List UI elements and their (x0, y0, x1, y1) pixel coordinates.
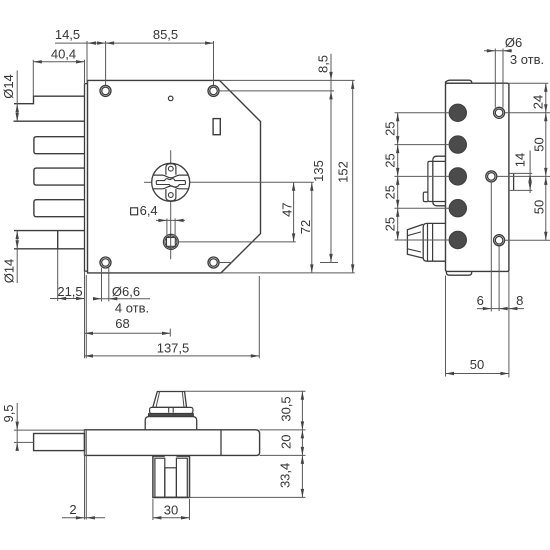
svg-text:152: 152 (336, 161, 351, 183)
cylinder escutcheon circle (152, 163, 190, 201)
bottom knob grip (153, 392, 187, 408)
bottom view faceplate edge lines (84, 430, 86, 520)
svg-text:Ø6: Ø6 (505, 35, 522, 50)
svg-text:6: 6 (477, 293, 484, 308)
rectangular slot (213, 119, 220, 135)
svg-text:25: 25 (383, 153, 398, 167)
bolt end circle 1 (449, 104, 466, 121)
bottom foot outer (153, 455, 190, 497)
small pin hole (168, 96, 173, 101)
bottom view bolt (34, 434, 85, 451)
bottom knob base (145, 417, 197, 430)
svg-text:Ø6,6: Ø6,6 (112, 284, 140, 299)
side screw hole top (494, 107, 505, 118)
side view bottom cap lip (446, 271, 471, 275)
cylinder centerline vertical (170, 150, 172, 163)
side tab 14 right edge (513, 173, 515, 190)
svg-text:9,5: 9,5 (1, 404, 16, 422)
svg-text:3 отв.: 3 отв. (510, 52, 544, 67)
deadbolt B2 (34, 137, 85, 154)
side view top cap tab (446, 80, 472, 83)
svg-text:21,5: 21,5 (57, 284, 82, 299)
svg-text:135: 135 (311, 160, 326, 182)
svg-text:24: 24 (531, 95, 546, 109)
cylinder centerline extension right (190, 181, 314, 183)
side view body (446, 83, 509, 271)
follower centerline extension right (179, 241, 296, 243)
svg-text:137,5: 137,5 (157, 340, 190, 355)
screw hole bottom-right (208, 257, 219, 268)
deadbolt B3 (34, 168, 85, 185)
svg-text:30,5: 30,5 (278, 396, 293, 421)
faceplate front view strip (85, 84, 88, 272)
bolt end circle 4 (449, 200, 466, 217)
front body bottom edge extension (221, 272, 355, 274)
cylinder centerline horizontal ticks (144, 181, 152, 183)
bottom knob flange (150, 407, 193, 413)
deadbolt B4 (34, 200, 85, 217)
svg-text:25: 25 (383, 185, 398, 199)
knob side profile (407, 224, 423, 258)
svg-text:2: 2 (69, 502, 76, 517)
bottom view bar body (85, 430, 260, 456)
latch bolt B5 bottom (14, 231, 85, 249)
deadbolt B1 top stepped bolt (14, 96, 85, 121)
svg-text:68: 68 (115, 316, 129, 331)
screw hole top-left (100, 85, 111, 96)
hole centerline extension y262 (219, 262, 232, 264)
cylinder bottom screw tab (166, 188, 176, 201)
bottom foot prongs (155, 458, 165, 497)
svg-text:85,5: 85,5 (153, 27, 178, 42)
svg-text:Ø14: Ø14 (2, 259, 17, 284)
screw hole bottom-left (100, 257, 111, 268)
svg-text:50: 50 (532, 137, 547, 151)
bottom view bar joint line (220, 430, 222, 456)
svg-text:50: 50 (470, 357, 484, 372)
cylinder side small tab C (423, 192, 428, 202)
dimension chain 25 line (397, 113, 399, 240)
svg-text:33,4: 33,4 (278, 463, 293, 488)
bottom knob dark band (148, 414, 193, 417)
cylinder top screw tab (166, 164, 176, 176)
svg-text:4 отв.: 4 отв. (115, 301, 149, 316)
svg-text:8,5: 8,5 (316, 55, 331, 73)
bolt end circle 5 (449, 231, 466, 248)
svg-text:25: 25 (383, 121, 398, 135)
screw hole top-right (208, 85, 219, 96)
bottom knob slot ticks (168, 407, 170, 412)
lock body front view outline (88, 80, 261, 273)
cylinder side tab A (433, 156, 446, 206)
svg-text:25: 25 (383, 217, 398, 231)
side screw hole middle (486, 171, 497, 182)
side screw hole bottom (494, 235, 505, 246)
follower square hole (167, 238, 176, 247)
bolt end circle 2 (449, 136, 466, 153)
svg-text:40,4: 40,4 (51, 46, 76, 61)
svg-text:Ø14: Ø14 (1, 74, 16, 99)
svg-text:14: 14 (513, 153, 528, 167)
svg-text:72: 72 (298, 220, 313, 234)
svg-text:20: 20 (278, 435, 293, 449)
svg-text:30: 30 (164, 502, 178, 517)
svg-text:6,4: 6,4 (140, 203, 158, 218)
svg-text:8: 8 (516, 293, 523, 308)
svg-text:14,5: 14,5 (55, 27, 80, 42)
bottom foot middle bridge (165, 468, 177, 497)
cylinder side plate B (428, 161, 446, 201)
keyway slot (156, 179, 185, 187)
dimension chain 25 extension lines (395, 112, 450, 114)
front body top edge extension (220, 79, 355, 81)
svg-text:50: 50 (532, 200, 547, 214)
hole centerline extension y91 (219, 90, 334, 92)
svg-text:47: 47 (280, 202, 295, 216)
bolt end circle 3 (449, 168, 466, 185)
dimension square 6,4 (131, 208, 138, 215)
follower hub rings (163, 234, 178, 249)
